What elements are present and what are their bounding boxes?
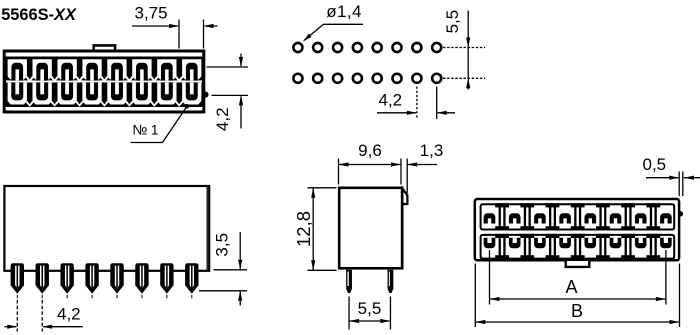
svg-text:3,5: 3,5 xyxy=(213,233,232,257)
svg-text:B: B xyxy=(571,301,583,321)
svg-text:4,2: 4,2 xyxy=(57,304,81,323)
svg-text:A: A xyxy=(565,277,577,297)
svg-text:12,8: 12,8 xyxy=(293,211,314,247)
svg-text:№ 1: № 1 xyxy=(132,122,158,138)
svg-text:4,2: 4,2 xyxy=(379,91,403,110)
svg-text:ø1,4: ø1,4 xyxy=(326,2,362,21)
svg-text:0,5: 0,5 xyxy=(643,155,667,174)
svg-text:5566S-XX: 5566S-XX xyxy=(1,6,77,24)
svg-text:4,2: 4,2 xyxy=(213,107,232,131)
svg-text:1,3: 1,3 xyxy=(420,141,444,160)
svg-text:9,6: 9,6 xyxy=(358,141,382,160)
svg-text:3,75: 3,75 xyxy=(135,3,168,22)
svg-text:5,5: 5,5 xyxy=(443,10,462,34)
svg-text:5,5: 5,5 xyxy=(358,299,382,318)
